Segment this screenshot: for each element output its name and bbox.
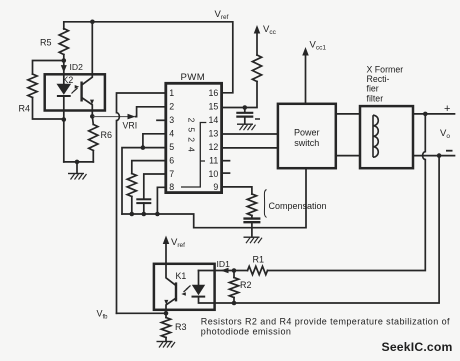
svg-text:6: 6 bbox=[169, 156, 174, 166]
svg-text:R5: R5 bbox=[40, 38, 52, 48]
svg-text:8: 8 bbox=[169, 182, 174, 192]
svg-text:4: 4 bbox=[169, 129, 174, 139]
svg-text:15: 15 bbox=[209, 102, 219, 112]
svg-text:R4: R4 bbox=[19, 104, 31, 114]
svg-text:PWM: PWM bbox=[181, 72, 206, 83]
svg-text:ID1: ID1 bbox=[217, 259, 231, 269]
svg-text:R1: R1 bbox=[253, 255, 265, 265]
svg-text:photodiode emission: photodiode emission bbox=[201, 326, 292, 336]
svg-text:14: 14 bbox=[209, 115, 219, 125]
svg-text:3: 3 bbox=[169, 115, 174, 125]
svg-text:10: 10 bbox=[209, 169, 219, 179]
svg-text:5: 5 bbox=[169, 142, 174, 152]
svg-text:Recti-: Recti- bbox=[367, 74, 390, 84]
svg-text:Resistors R2 and R4 provide te: Resistors R2 and R4 provide temperature … bbox=[201, 317, 450, 327]
svg-text:12: 12 bbox=[209, 142, 219, 152]
svg-text:1: 1 bbox=[169, 88, 174, 98]
svg-text:ID2: ID2 bbox=[70, 62, 84, 72]
svg-text:Power: Power bbox=[294, 128, 320, 138]
svg-text:R6: R6 bbox=[101, 130, 113, 140]
svg-text:11: 11 bbox=[209, 156, 218, 166]
svg-text:X Former: X Former bbox=[367, 65, 404, 75]
svg-text:fier: fier bbox=[367, 84, 379, 94]
svg-text:R3: R3 bbox=[175, 322, 187, 332]
svg-text:16: 16 bbox=[209, 88, 219, 98]
svg-text:VRI: VRI bbox=[123, 121, 138, 131]
svg-text:2524: 2524 bbox=[187, 118, 197, 157]
svg-text:filter: filter bbox=[367, 93, 384, 103]
svg-text:7: 7 bbox=[169, 169, 174, 179]
svg-text:SeekIC.com: SeekIC.com bbox=[382, 340, 453, 354]
svg-text:Compensation: Compensation bbox=[269, 201, 327, 211]
svg-text:13: 13 bbox=[209, 129, 219, 139]
svg-text:+: + bbox=[444, 103, 450, 115]
svg-text:2: 2 bbox=[169, 102, 174, 112]
svg-text:K2: K2 bbox=[63, 75, 74, 85]
svg-text:R2: R2 bbox=[240, 280, 252, 290]
svg-text:switch: switch bbox=[294, 138, 319, 148]
svg-text:K1: K1 bbox=[176, 271, 187, 281]
svg-text:9: 9 bbox=[213, 182, 218, 192]
